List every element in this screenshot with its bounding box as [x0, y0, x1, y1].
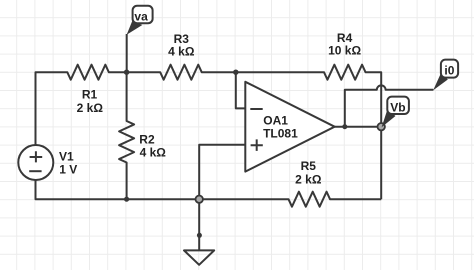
svg-text:i0: i0: [444, 63, 454, 77]
svg-text:TL081: TL081: [263, 127, 298, 141]
svg-text:R5: R5: [301, 159, 317, 173]
svg-text:10 kΩ: 10 kΩ: [328, 44, 361, 58]
svg-text:R1: R1: [82, 88, 98, 102]
svg-text:4 kΩ: 4 kΩ: [168, 44, 195, 58]
svg-text:1 V: 1 V: [59, 162, 77, 176]
svg-text:2 kΩ: 2 kΩ: [295, 173, 322, 187]
svg-text:Vb: Vb: [390, 101, 405, 115]
svg-text:V1: V1: [59, 149, 74, 163]
svg-text:va: va: [134, 9, 148, 23]
svg-text:2 kΩ: 2 kΩ: [77, 101, 104, 115]
svg-text:R2: R2: [139, 132, 155, 146]
svg-text:4 kΩ: 4 kΩ: [140, 146, 167, 160]
